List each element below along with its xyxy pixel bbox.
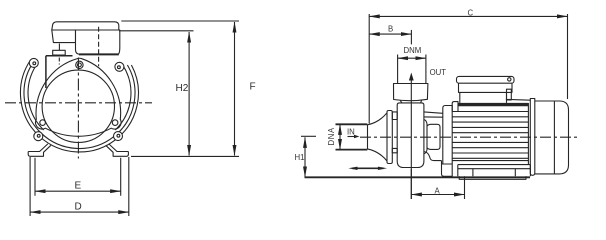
band lug top-left [29,58,38,67]
fan cover body [535,101,569,174]
inlet DNA upper extension (thick) [336,123,368,125]
dimension E [35,190,121,192]
motor fins [452,112,528,159]
H1 top tick [301,135,316,137]
svg-text:D: D [75,202,82,213]
motor base shadow plate [459,176,526,179]
outer band arc 2 [24,61,135,149]
bearing bracket [424,120,440,154]
dimension H1 [304,137,306,177]
band lug top-right [115,62,124,71]
double-headed arrow [352,167,384,169]
fan cover clamp band [530,99,535,176]
flange plate (rounded triangle) [35,58,121,136]
svg-text:A: A [435,187,441,196]
pump casing body [397,103,424,168]
svg-text:DNA: DNA [327,127,336,145]
inner bore circle [42,70,114,142]
inlet cone [368,113,388,161]
baseline extension left view [131,155,239,157]
DNM extension lines [398,55,426,84]
dimension B [369,33,411,35]
cable gland screw [58,44,60,51]
right view horizontal centerline [360,136,577,138]
band lug hole bottom-right [117,134,120,137]
svg-text:C: C [468,9,474,18]
gland dashed centerline [58,58,60,65]
motor frame top-left block [452,102,458,112]
motor terminal box lower [460,92,507,103]
band lug bottom-left [34,132,43,141]
IN arrow [348,136,357,138]
svg-text:E: E [75,181,82,192]
H2 extension line from lid bottom [119,30,194,32]
terminal box porch (left lower) [52,30,76,43]
svg-text:OUT: OUT [430,68,447,77]
discharge block [394,84,428,101]
dimension DNA [339,124,341,149]
motor base block [458,165,531,177]
inlet DNA lower extension (thick) [336,149,368,151]
band lug hole top-right [118,66,121,69]
motor frame right edge [527,103,529,165]
horizontal centerline left view [5,102,152,104]
outer band arc 1 [20,61,138,152]
lower-left bolt hole [40,120,46,126]
band lug hole top-left [33,62,36,65]
top bolt hole boss [76,61,83,68]
dimension D [30,211,129,213]
svg-text:F: F [250,82,256,93]
band lug bottom-right [114,132,123,141]
motor body bottom [452,160,528,162]
casing bolt tab lower [392,148,397,152]
svg-text:DNM: DNM [404,46,422,55]
motor flange foot [442,161,453,177]
box dashed centerline [98,27,100,67]
baseline right view (thick) [305,176,531,178]
dimension F [234,22,236,156]
motor terminal box upper [459,83,513,92]
flow arrow up [409,73,414,81]
right foot [106,145,129,156]
occlusion patch under porch [51,42,67,51]
top bolt hole [78,63,82,67]
B right extension [410,30,412,45]
lower-right bolt hole [112,120,118,126]
discharge neck [400,100,421,103]
motor terminal box tab [507,89,512,100]
motor terminal box lid [457,76,515,83]
terminal box bottom edge (thick) [79,53,119,55]
dimension C [369,15,567,17]
F extension line from lid top [121,20,239,22]
svg-text:H1: H1 [295,153,305,162]
vertical centerline left view [77,58,79,159]
dimension A [411,194,464,196]
dimension DNM [398,57,426,59]
cable gland cap [53,50,65,55]
E extension lines [35,158,121,196]
terminal box lid [52,22,119,30]
svg-text:B: B [388,25,393,34]
svg-text:H2: H2 [176,83,189,94]
inlet flange ring [387,111,392,164]
band lug hole bottom-left [37,134,40,137]
terminal box main body [76,30,120,54]
left foot pad top [28,144,48,152]
bracket bottom strip [424,152,442,161]
motor terminal box screw [508,78,511,81]
C extension right [567,14,569,99]
bracket top strip [424,112,443,117]
A extension lines [411,169,464,199]
svg-text:IN: IN [347,127,355,136]
fan cover seam [553,101,555,174]
motor flange ring [443,106,452,165]
left foot [28,145,51,156]
casing bolt tab upper [392,112,397,120]
outer band arc 3 (sides only) [28,66,131,130]
discharge axis line [410,81,412,200]
D extension lines [30,157,129,216]
fan cover top silhouette behind motor [506,98,530,101]
right foot pad top [109,144,129,152]
C extension left [368,14,370,124]
motor top band (thick) [458,103,529,106]
casing body under terminal box [46,56,73,88]
dimension H2 [188,32,190,156]
